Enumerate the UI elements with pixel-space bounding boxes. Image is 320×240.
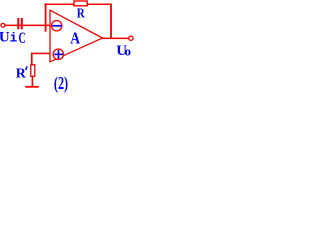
wire noninverting horizontal [31, 53, 54, 55]
resistor R feedback [74, 1, 87, 6]
svg-text:C: C [19, 30, 26, 47]
terminal output [129, 36, 133, 40]
wire noninverting vertical down [31, 53, 33, 65]
capacitor C [17, 18, 19, 29]
wire resistor R' to ground stub [32, 77, 34, 87]
op-amp U1 triangle [50, 10, 103, 62]
wire input from terminal to op-amp [4, 25, 50, 27]
wire output [102, 38, 130, 40]
ground [25, 86, 39, 88]
svg-text:Ui: Ui [0, 29, 17, 45]
wire feedback left vertical [45, 4, 47, 32]
op-amp noninverting input circle [53, 49, 63, 59]
op-amp inverting input circle [52, 21, 62, 31]
svg-text:(2): (2) [54, 73, 68, 93]
terminal input [1, 23, 5, 27]
svg-text:R: R [77, 7, 86, 22]
svg-text:R: R [16, 67, 27, 82]
svg-text:A: A [70, 29, 80, 48]
svg-text:Uo: Uo [116, 43, 131, 59]
minus sign [52, 25, 61, 27]
wire feedback top horizontal [44, 4, 111, 6]
plus sign [54, 54, 63, 56]
resistor R' [31, 65, 35, 77]
wire feedback right vertical [110, 4, 112, 39]
